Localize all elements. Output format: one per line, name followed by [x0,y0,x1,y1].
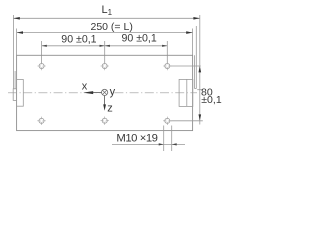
dimension line 250 [17,32,193,34]
svg-text:250 (= L): 250 (= L) [91,21,133,33]
dimension/leader line M10 [112,143,185,145]
hole A2 [101,62,109,70]
left edge inner line [14,71,16,89]
extension line 250 right [192,29,194,56]
lube fitting left [13,89,16,101]
dimension line L1 [13,17,199,19]
svg-text:M10 ×19: M10 ×19 [116,133,157,145]
coordinate origin symbol [102,89,108,95]
hole A1 [37,62,45,70]
arrowhead 90L left [42,45,47,47]
arrowhead L1 left [13,17,19,20]
arrowhead 250 left [17,31,23,34]
centerline [8,92,197,94]
extension line hole column 2 [104,41,106,63]
svg-text:y: y [110,86,116,98]
arrowhead M10 right [172,143,177,145]
svg-text:x: x [82,81,88,93]
hole B1 [37,117,45,125]
right end line b [195,26,197,89]
svg-text:±0,1: ±0,1 [201,94,222,106]
arrowhead 80 top [199,66,202,72]
dimension line 80 vertical [199,15,201,125]
z axis arrow [104,96,106,105]
hole A3 [163,62,171,70]
right end line a [194,55,196,88]
arrowhead 80 bottom [199,114,202,120]
svg-text:L1: L1 [102,4,113,17]
extension line M10 right [171,126,173,152]
right end connector [195,88,197,90]
left end inner rectangle [17,80,24,107]
hole B3 [163,117,171,125]
svg-text:90 ±0,1: 90 ±0,1 [122,33,157,45]
extension line hole column 3 [166,41,168,63]
hole B2 [101,117,109,125]
extension line L1 left [12,15,14,89]
extension line hole column 1 [41,41,43,63]
arrowhead 90R left [105,45,110,47]
arrowhead 90L right [100,45,105,47]
right end inner rectangle [179,79,193,106]
right end inner divider [186,79,188,106]
extension line 80 top [170,65,201,67]
dimension line 90 right [105,45,168,47]
arrowhead 90R right [162,45,167,47]
right tick at y90 [197,89,203,91]
plate outline [17,55,193,130]
svg-text:z: z [107,103,113,115]
svg-text:90 ±0,1: 90 ±0,1 [61,33,96,45]
extension line 250 left [16,29,18,56]
arrowhead 250 right [186,31,192,34]
extension line M10 left [163,126,165,152]
dimension line 90 left [42,45,105,47]
extension line 80 bottom [170,120,203,122]
x axis arrow [89,92,101,94]
arrowhead M10 left [159,143,164,145]
arrowhead L1 right [193,17,199,20]
